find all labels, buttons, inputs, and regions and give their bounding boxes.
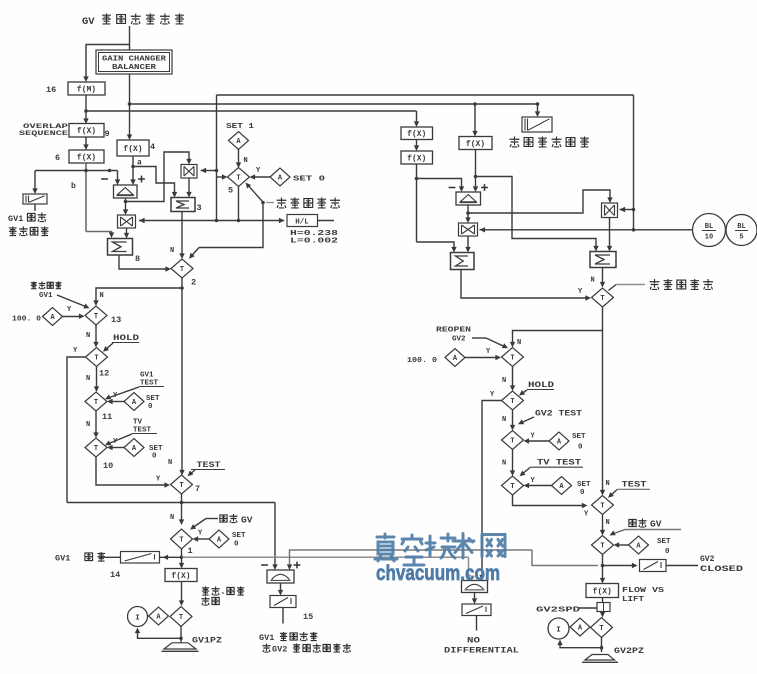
wire bus y104 drop to middle f(X) — [473, 102, 477, 106]
sign plus delta right — [481, 187, 488, 189]
svg-text:f(X): f(X) — [77, 153, 96, 162]
block multiplier X1 — [181, 165, 197, 179]
wire A to T11 — [111, 401, 125, 403]
svg-text:6: 6 — [55, 153, 60, 163]
wire T meter right to GV2PZ — [601, 638, 603, 653]
node on bus y104 — [128, 102, 132, 106]
wire text to box — [578, 607, 597, 609]
relay single-valve best position — [522, 117, 552, 132]
wire X1 to sum3 — [188, 178, 190, 194]
svg-text:SET: SET — [577, 481, 591, 489]
wire T reopen to T hold2 — [512, 367, 514, 388]
wire T12 to T11 — [96, 367, 98, 389]
block f(X) 9 — [69, 124, 104, 138]
wire A to T — [527, 485, 552, 487]
servo symbol GV2PZ — [585, 655, 615, 661]
relay GV1 at best position — [23, 194, 47, 204]
block sum 8 — [108, 239, 133, 256]
wire delta15 to box15 — [280, 583, 282, 592]
sign plus left delta — [138, 178, 145, 180]
svg-text:8: 8 — [135, 254, 140, 264]
svg-text:3: 3 — [197, 203, 202, 213]
svg-text:NO: NO — [467, 637, 480, 646]
decision T hold2 — [502, 391, 524, 410]
svg-text:GV2SPD: GV2SPD — [536, 607, 581, 615]
limit box 15 — [270, 596, 296, 608]
text '重新打开' — [31, 282, 37, 289]
wire down to delta15 minus — [274, 503, 276, 567]
wire Tseq trunk down — [602, 307, 604, 492]
wire bus y95 — [217, 94, 634, 96]
wire f(M) down to f(X)9 — [85, 95, 87, 121]
svg-text:N: N — [502, 460, 506, 468]
decision T meter left — [170, 607, 192, 627]
decision T11 — [85, 392, 107, 411]
svg-text:0: 0 — [580, 489, 585, 497]
svg-text:N: N — [502, 377, 506, 385]
wire bus y111 — [86, 110, 417, 112]
svg-text:T: T — [510, 398, 514, 406]
wire box15 stub — [282, 608, 284, 624]
decision T1 — [171, 529, 193, 549]
wire T close2 down to f(X) — [602, 555, 604, 581]
decision A set0 of T1 — [209, 530, 229, 548]
leader TEST to T7 — [189, 470, 195, 475]
wire A set0 to T5 — [253, 176, 270, 178]
svg-text:T: T — [94, 313, 98, 321]
svg-text:TEST: TEST — [622, 481, 647, 490]
wire H/L bus y220 — [139, 220, 284, 222]
svg-text:T: T — [236, 175, 240, 183]
leader close-gv to T1 — [206, 518, 218, 520]
text '关闭GV' left — [220, 515, 227, 522]
block sum 3 — [171, 198, 195, 212]
block f(X) middle — [459, 137, 492, 150]
decision A set0 gv2test — [549, 432, 569, 450]
svg-text:GV2 TEST: GV2 TEST — [535, 410, 582, 419]
wire tap across to sumB — [476, 177, 597, 249]
svg-text:N: N — [606, 519, 610, 527]
text '单阀最佳阀位' — [510, 137, 520, 147]
svg-text:GV2PZ: GV2PZ — [614, 647, 644, 656]
svg-text:9: 9 — [105, 129, 110, 139]
svg-text:0: 0 — [665, 548, 670, 556]
wire T13 to T12 — [95, 325, 97, 344]
svg-text:7: 7 — [195, 484, 200, 494]
decision T tvtest right — [502, 476, 524, 495]
svg-text:N: N — [502, 416, 506, 424]
wire bus y111 drop into right f(X) stack — [416, 111, 418, 124]
wire cross line y502 from T12Y to GV1 command tap — [67, 502, 275, 504]
wire sum8 output to T2 — [119, 255, 168, 269]
circle BL/10 — [693, 214, 726, 247]
svg-text:FLOW VS: FLOW VS — [622, 587, 665, 595]
svg-text:b: b — [71, 182, 76, 191]
svg-text:GV1: GV1 — [39, 292, 53, 300]
wire y170 branch: relay and minus input — [35, 170, 118, 172]
decision T12 — [86, 348, 108, 367]
wire A to T10 — [111, 447, 125, 449]
svg-text:BL: BL — [705, 223, 713, 231]
decision T meter right — [591, 618, 613, 638]
svg-text:T: T — [179, 482, 183, 490]
decision T sequencer right — [592, 288, 614, 307]
svg-text:T: T — [94, 399, 98, 407]
text '关闭GV' right — [629, 519, 636, 526]
decision T5 — [228, 168, 250, 187]
svg-text:T: T — [94, 445, 98, 453]
wire bus y104 — [130, 103, 538, 105]
wire X2 to sum8 — [126, 228, 128, 235]
block f(X) flow vs lift — [586, 584, 619, 598]
svg-text:GV2: GV2 — [272, 645, 287, 655]
svg-text:f(X): f(X) — [171, 572, 190, 581]
decision T2 — [171, 259, 193, 278]
block f(M) 16 — [68, 82, 105, 95]
svg-text:N: N — [86, 332, 90, 340]
decision A set1 — [229, 132, 249, 150]
block delta comparator 15 — [267, 570, 294, 583]
svg-text:N: N — [591, 277, 595, 285]
svg-text:SET 0: SET 0 — [293, 176, 326, 184]
wire feedback to I right — [560, 642, 602, 648]
svg-text:H/L: H/L — [295, 219, 309, 227]
wire plus input from GV2 command line — [290, 550, 533, 567]
wire f(X)4 tap to sum3 left input — [133, 167, 175, 195]
wire f(X)9 to f(X)6 — [85, 137, 87, 147]
wire T10 to T7 — [96, 457, 167, 485]
decision T reopen GV2 — [502, 348, 524, 367]
wire right f(X) stack output — [416, 164, 418, 242]
wire GAIN box down to f(X)4 — [129, 74, 131, 137]
decision A meter right — [570, 618, 590, 636]
block multiplier X3 — [459, 223, 478, 236]
circle BL/5 — [726, 215, 757, 246]
wire X4 to sumB — [609, 218, 611, 249]
wire A to T1 — [196, 538, 209, 540]
svg-text:11: 11 — [102, 412, 112, 422]
svg-text:N: N — [86, 421, 90, 429]
wire T hold2 to T gv2test — [512, 410, 514, 427]
decision T gv2test — [502, 431, 524, 450]
decision T test2 — [592, 496, 614, 515]
wire delta-r tap to X4 top — [468, 190, 610, 213]
svg-text:T: T — [600, 543, 604, 551]
wire middle f(X) output — [475, 150, 477, 189]
text '顺序阀方式' left — [277, 198, 287, 208]
wire T1 to f(X) flow — [181, 549, 183, 565]
svg-text:T: T — [510, 355, 514, 363]
wire delta out junction — [125, 198, 127, 212]
leader to T test2 — [610, 490, 618, 497]
svg-text:f(X): f(X) — [77, 127, 96, 136]
text '关系' — [201, 597, 209, 606]
svg-text:GV2: GV2 — [700, 555, 715, 564]
svg-text:T: T — [180, 266, 184, 274]
svg-text:12: 12 — [99, 369, 109, 379]
block sum B right — [590, 252, 616, 268]
svg-text:GV1: GV1 — [140, 372, 154, 380]
svg-text:SET: SET — [572, 433, 586, 441]
wire between right f(X) — [416, 140, 418, 148]
svg-text:0: 0 — [578, 444, 583, 452]
svg-text:GAIN CHANGER: GAIN CHANGER — [102, 56, 167, 64]
wire branch to T13 — [96, 288, 182, 303]
leader sequencer mode right — [609, 285, 617, 291]
block multiplier X2 — [118, 215, 136, 228]
svg-text:GV2: GV2 — [452, 336, 466, 344]
svg-text:GV: GV — [241, 515, 253, 526]
wire box to text — [666, 565, 698, 567]
svg-text:HOLD: HOLD — [113, 334, 139, 343]
svg-text:15: 15 — [303, 612, 313, 622]
sign minus delta15 — [261, 564, 268, 566]
svg-text:L=0.002: L=0.002 — [290, 238, 339, 246]
svg-text:TV TEST: TV TEST — [537, 459, 581, 468]
wire T12 Y feedback left and down — [67, 357, 86, 503]
svg-text:SET: SET — [232, 532, 246, 540]
svg-text:GV1PZ: GV1PZ — [192, 637, 222, 646]
svg-text:CLOSED: CLOSED — [700, 565, 743, 574]
watermark character 术 — [453, 534, 474, 559]
svg-text:REOPEN: REOPEN — [436, 327, 471, 335]
decision T close2 — [592, 536, 614, 555]
block H/L limiter — [287, 215, 318, 227]
svg-text:I: I — [556, 627, 561, 635]
wire grey cross line to NO DIFFERENTIAL — [182, 556, 469, 558]
block GAIN CHANGER BALANCER — [96, 50, 172, 74]
watermark character 技 — [426, 534, 455, 558]
svg-text:1: 1 — [188, 546, 193, 556]
block speed box — [597, 603, 610, 612]
wire right feedback Y of HOLD2 down to no-differential — [482, 401, 502, 578]
svg-text:T: T — [599, 625, 603, 633]
decision A 100.0 left — [43, 308, 63, 326]
svg-text:f(X): f(X) — [123, 145, 142, 154]
svg-text:SEQUENCE: SEQUENCE — [19, 130, 68, 137]
decision T13 — [85, 306, 107, 325]
leader reopen to T13 — [57, 295, 88, 308]
svg-text:SET: SET — [657, 538, 671, 546]
svg-text:16: 16 — [46, 85, 56, 95]
servo symbol GV1PZ — [164, 643, 196, 649]
decision A 100.0 right — [445, 349, 465, 367]
wire A to T13 — [63, 316, 82, 318]
wire f(X) to spd box — [602, 598, 604, 603]
limit box 14 GV1 closed — [121, 552, 160, 564]
text '与GV2开度指令相同' — [262, 644, 270, 653]
svg-text:f(X): f(X) — [407, 154, 426, 163]
block delta no-differential — [462, 581, 488, 593]
wire T gv2test to T tvtest — [512, 450, 514, 473]
svg-text:GV: GV — [650, 519, 662, 530]
wire sum3 to T2 — [181, 212, 183, 256]
block delta comparator right — [456, 192, 481, 205]
svg-text:T: T — [600, 295, 604, 303]
wire branch x216 to T5 — [217, 176, 225, 178]
wire feedback to I — [138, 630, 182, 638]
limit box GV2 CLOSED — [640, 560, 667, 572]
decision T10 — [85, 438, 107, 457]
leader HOLD to T12 — [105, 343, 114, 351]
svg-text:5: 5 — [739, 234, 743, 242]
wire x216 feed into X1 — [215, 169, 219, 173]
svg-text:GV: GV — [82, 16, 95, 28]
svg-text:T: T — [510, 483, 514, 491]
svg-text:N: N — [244, 157, 248, 165]
wire sumB to Tseq — [602, 268, 604, 285]
wire X3 to sumA — [467, 236, 469, 249]
svg-text:0: 0 — [234, 541, 239, 549]
wire T5 down to bus y220 — [238, 187, 240, 221]
svg-text:14: 14 — [110, 570, 120, 580]
svg-text:N: N — [86, 375, 90, 383]
wire sequencer node down to T2 — [199, 203, 263, 248]
svg-text:100. 0: 100. 0 — [12, 316, 42, 324]
wire delta out elbow up to X1 — [126, 152, 190, 202]
svg-text:4: 4 — [150, 142, 155, 152]
svg-text:13: 13 — [111, 315, 121, 325]
leader to T tvtest — [521, 468, 530, 476]
svg-text:GV1: GV1 — [8, 214, 23, 224]
leader close gv right — [625, 529, 681, 531]
svg-text:SET: SET — [146, 395, 160, 403]
wire tap to delta-r minus — [417, 179, 462, 189]
svg-text:2: 2 — [191, 278, 196, 288]
leader to T gv2test — [520, 417, 535, 424]
svg-text:N: N — [170, 247, 174, 255]
sign plus delta15 — [294, 564, 301, 566]
wire T meter to GV1PZ ground — [180, 627, 182, 643]
svg-text:f(X): f(X) — [593, 587, 612, 596]
wire A to T — [527, 440, 549, 442]
limit box NO DIFFERENTIAL — [462, 604, 491, 616]
wire A set1 to T5 — [238, 150, 240, 165]
wire BL line into X3 — [480, 229, 693, 231]
block delta comparator left — [114, 185, 138, 198]
leader to text — [266, 202, 274, 204]
wire T tvtest to T test2 — [513, 495, 585, 506]
wire A to T close2 — [617, 544, 629, 546]
svg-text:DIFFERENTIAL: DIFFERENTIAL — [444, 647, 519, 656]
wire x633 into X4 — [632, 208, 636, 212]
block f(X) right upper — [401, 127, 433, 140]
wire delta to slash box — [474, 593, 476, 601]
svg-text:I: I — [135, 615, 140, 623]
block multiplier X4 — [602, 203, 618, 218]
wire y95 right drop x633 — [633, 95, 635, 230]
wire H/L out stub — [318, 220, 335, 222]
text '流量-阀位' — [202, 587, 209, 596]
wire delta-r output junction — [467, 205, 469, 220]
svg-text:f(M): f(M) — [77, 85, 96, 94]
wire sequencer-mode node to T5 — [248, 185, 263, 201]
svg-text:f(X): f(X) — [466, 140, 485, 149]
block f(X) 6 — [69, 150, 104, 163]
decision A set0 tvtest right — [552, 477, 572, 495]
wire T7 to T1 — [181, 494, 183, 522]
watermark character 空 — [402, 535, 424, 565]
decision A set0 of T10 — [124, 439, 144, 457]
svg-text:T: T — [179, 614, 183, 622]
sign minus delta right — [449, 187, 456, 189]
svg-text:SET 1: SET 1 — [226, 123, 255, 131]
svg-text:T: T — [510, 438, 514, 446]
svg-text:LIFT: LIFT — [622, 596, 645, 604]
svg-text:chvacuum.com: chvacuum.com — [376, 562, 500, 585]
svg-text:f(X): f(X) — [407, 130, 426, 139]
svg-text:N: N — [170, 514, 174, 522]
svg-text:T: T — [94, 355, 98, 363]
wire GV2 closed branch — [603, 565, 637, 567]
watermark character 真 — [375, 534, 505, 566]
wire branch to f(M) — [86, 45, 130, 80]
decision A meter left — [149, 607, 169, 625]
svg-text:N: N — [517, 339, 521, 347]
leader to T hold2 — [521, 390, 528, 395]
decision T7 — [171, 475, 193, 494]
svg-text:100. 0: 100. 0 — [407, 357, 438, 365]
sign minus left delta — [101, 178, 108, 180]
leader GV1 TEST to T11 — [107, 387, 140, 399]
wire f(X)6 output b down to sum8 — [85, 163, 87, 232]
wire title to GAIN box — [129, 26, 131, 50]
wire branch to REOPEN T — [513, 331, 603, 345]
svg-text:5: 5 — [228, 186, 233, 196]
text '顺序阀方式' right — [650, 279, 660, 289]
svg-text:N: N — [168, 459, 172, 467]
wire spd box to T meter right — [602, 612, 604, 615]
svg-text:TV: TV — [133, 419, 143, 427]
wire stack output elbow to sumA — [417, 242, 455, 249]
meter I circle left — [128, 607, 148, 627]
wire T2 output trunk down to T7 — [181, 278, 183, 472]
wire bus y104 drop to single-valve relay — [536, 102, 540, 106]
wire relay stub — [34, 204, 36, 211]
wire T test2 to T close2 — [602, 515, 604, 533]
wire A to T reopen — [465, 357, 498, 359]
text '最佳阀位' — [9, 227, 17, 236]
wire f(X)4 output to summing point — [132, 156, 134, 182]
wire text to box14 — [99, 556, 121, 558]
svg-text:0: 0 — [152, 453, 157, 461]
svg-text:10: 10 — [705, 234, 713, 242]
leader reopen gv2 to T — [472, 337, 486, 339]
wire T11 to T10 — [95, 411, 97, 435]
svg-text:BALANCER: BALANCER — [112, 64, 157, 72]
block f(X) 4 — [117, 140, 149, 156]
svg-text:GV1: GV1 — [55, 554, 70, 564]
node sequencer mode left — [261, 201, 265, 205]
svg-text:N: N — [100, 292, 104, 300]
decision A set0 right of T5 — [270, 168, 290, 186]
block sum A right — [451, 253, 475, 270]
wire box14 to trunk — [160, 556, 182, 558]
svg-text:-: - — [221, 589, 226, 598]
wire f(X) to T meter — [181, 582, 183, 603]
wire sumA output to Tseq Y — [461, 270, 588, 299]
meter I circle right — [548, 618, 569, 639]
svg-text:10: 10 — [103, 461, 113, 471]
wire stub — [476, 616, 478, 631]
svg-text:N: N — [606, 480, 610, 488]
svg-text:BL: BL — [737, 223, 745, 231]
decision A set0 close2 — [629, 536, 649, 554]
svg-text:0: 0 — [148, 403, 153, 411]
leader TV TEST to T10 — [107, 434, 133, 445]
svg-text:HOLD: HOLD — [528, 381, 554, 390]
block f(X) right lower — [401, 151, 433, 164]
